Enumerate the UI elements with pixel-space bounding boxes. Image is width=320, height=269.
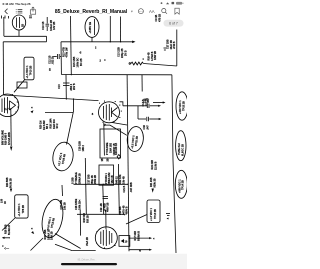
wire tube bottom right (112, 123, 127, 126)
svg-text:▾: ▾ (131, 10, 133, 14)
svg-text:+185V 1B: +185V 1B (88, 22, 92, 34)
svg-text:56.0k 2B: 56.0k 2B (9, 178, 12, 188)
wire left edge vertical (3, 17, 5, 36)
svg-text:250k 2B: 250k 2B (94, 175, 97, 184)
box BASS pot (99, 165, 114, 185)
svg-text:16V 2B: 16V 2B (53, 21, 56, 30)
svg-text:C21 B: C21 B (123, 185, 126, 192)
wire vertical to V6 (105, 210, 107, 229)
capacitor C13 (58, 83, 76, 91)
svg-text:6 of 7: 6 of 7 (169, 22, 178, 26)
svg-text:11.7: 11.7 (4, 108, 9, 111)
svg-text:85_Deluxe_Reverb_RI_Manual: 85_Deluxe_Reverb_RI_Manual (55, 9, 128, 15)
svg-text:91.0kA B: 91.0kA B (137, 231, 140, 241)
toolbar share icon (30, 7, 35, 14)
svg-text:+1.3 VDC 1: +1.3 VDC 1 (18, 203, 21, 217)
toolbar bookmark icon (175, 8, 179, 14)
node dot (129, 237, 130, 238)
symbol cap marks (164, 48, 167, 50)
svg-text:JFW B: JFW B (173, 41, 176, 49)
capacitor C12 symbol (54, 54, 62, 59)
callout TP16 (51, 141, 76, 173)
svg-text:C13: C13 (58, 84, 61, 89)
svg-text:510 2B: 510 2B (86, 215, 89, 223)
svg-text:85_Deluxe_Rev...: 85_Deluxe_Rev... (78, 259, 97, 262)
svg-text:910k 2B: 910k 2B (153, 178, 156, 187)
svg-text:47B 2B: 47B 2B (158, 14, 161, 22)
wire horizontal bottom (72, 250, 96, 252)
svg-text:TP14 2B: TP14 2B (182, 180, 185, 190)
svg-text:VGA 1B: VGA 1B (86, 237, 89, 246)
svg-text:10k 4B: 10k 4B (122, 176, 125, 184)
svg-text:2V B: 2V B (125, 50, 128, 56)
wire tone bus (74, 183, 128, 185)
wire vertical to volume (103, 123, 106, 156)
callout 6L6 (176, 131, 186, 161)
ground arrow (10, 147, 12, 152)
svg-text:400V B: 400V B (126, 206, 129, 214)
svg-text:.047: .047 (146, 125, 149, 130)
svg-text:N: N (139, 249, 141, 253)
svg-text:BC 2B: BC 2B (80, 58, 83, 66)
wire (102, 185, 105, 214)
svg-text:22.0k B: 22.0k B (154, 161, 157, 170)
tube V6 (95, 227, 117, 249)
wire vertical B (65, 75, 67, 100)
svg-text:2kV B: 2kV B (73, 83, 76, 90)
wire C16 row (138, 106, 162, 121)
box arrow 1B (119, 236, 130, 247)
callout +9 VDC (175, 170, 187, 198)
node dots tone bus (85, 184, 86, 185)
svg-text:1B: 1B (50, 68, 52, 71)
wire vertical (70, 16, 73, 75)
ground symbol right (166, 214, 170, 220)
wire (117, 164, 120, 214)
svg-text:.047: .047 (147, 98, 150, 103)
tube V4 (0, 94, 19, 117)
wire TP10 leader (14, 80, 25, 93)
svg-text:×: × (31, 106, 33, 110)
wire vertical (109, 16, 111, 42)
wire TP8 leader (2, 218, 15, 231)
svg-text:AA: AA (149, 9, 155, 14)
wire diagonal a (55, 234, 81, 249)
svg-text:6L6GC 2B: 6L6GC 2B (181, 144, 184, 156)
wire riser (46, 36, 48, 42)
svg-text:6:43 AM Thu Sep 26: 6:43 AM Thu Sep 26 (3, 2, 31, 6)
svg-text:400V 1B: 400V 1B (107, 202, 110, 212)
callout TP8 box (15, 195, 28, 218)
svg-text:-S: -S (79, 52, 82, 55)
svg-text:C10 1B: C10 1B (42, 21, 45, 30)
svg-text:10k 2B: 10k 2B (63, 202, 66, 210)
svg-text:250kA 2B: 250kA 2B (78, 173, 81, 184)
wire leader to TP11 (104, 124, 110, 126)
svg-text:1Pc0A 2BB: 1Pc0A 2BB (8, 132, 11, 145)
wire horizontal long (61, 74, 171, 76)
wire TP13 leader (126, 215, 147, 225)
svg-text:1B2 CB: 1B2 CB (112, 175, 114, 184)
callout TP10 (24, 57, 34, 80)
wire diagonal (67, 113, 74, 145)
callout +418 VDC (176, 92, 188, 120)
node (73, 98, 74, 99)
resistor R16 (129, 62, 177, 66)
symbol diamond (117, 155, 120, 159)
callout TP11 (126, 126, 145, 153)
callout TP13 box (147, 200, 160, 223)
wire vertical (119, 17, 121, 42)
page indicator pill 6 of 7 (164, 20, 184, 27)
toolbar contents icon (16, 10, 22, 13)
tone stack wires (85, 158, 86, 214)
wire TP12 leader (31, 238, 44, 251)
wire long mid vertical (127, 75, 129, 252)
svg-text:+1.3 VDC 1: +1.3 VDC 1 (150, 207, 153, 221)
wire vertical bottom mid (79, 210, 81, 236)
wire stub below TP16 (61, 185, 64, 196)
toolbar more icon (138, 9, 143, 14)
wire right top vertical (176, 30, 178, 67)
svg-text:51.0kA B: 51.0kA B (8, 225, 11, 235)
toolbar search icon (162, 9, 167, 14)
capacitor C10 (42, 17, 56, 31)
wire horizontal mid (45, 111, 73, 113)
wire C15 row (123, 104, 161, 108)
svg-text:1B: 1B (102, 158, 104, 161)
wire tone bottom bus (77, 213, 126, 215)
box VOLUME pot (100, 129, 121, 158)
wire arrowhead (132, 41, 135, 44)
svg-text:2B: 2B (22, 24, 25, 27)
svg-text:S0 2: S0 2 (56, 123, 59, 129)
tube V1 (12, 15, 25, 36)
wire stub to C14 (141, 75, 143, 92)
wire arrow (153, 102, 163, 104)
svg-text:×: × (31, 227, 33, 231)
svg-text:TP8 2B: TP8 2B (22, 205, 25, 214)
svg-text:1N4003 1B: 1N4003 1B (113, 143, 116, 155)
svg-text:10B 2: 10B 2 (82, 144, 85, 151)
tube V2 callout +185V (85, 17, 99, 42)
wire A horizontal (4, 35, 47, 37)
svg-text:100k 1B<: 100k 1B< (78, 199, 81, 210)
svg-text:TP10 2B: TP10 2B (30, 65, 33, 75)
home indicator (61, 263, 117, 265)
svg-text:.047 4BB: .047 4BB (130, 182, 133, 192)
wire diagonal b (55, 244, 72, 250)
wire long right vertical (172, 75, 176, 253)
node junction (120, 41, 121, 42)
svg-text:TP15 2B: TP15 2B (182, 101, 185, 111)
ground arrow (152, 189, 154, 193)
bottom grey band (0, 254, 187, 269)
wire plate out (120, 102, 123, 106)
wire branch b (129, 249, 152, 251)
callout TP12 (39, 197, 66, 239)
wire vertical left (10, 108, 12, 146)
wire corner vertical (60, 42, 62, 75)
node junction (110, 41, 111, 42)
wire left riser (2, 42, 4, 95)
wire V4 to V3 (4, 95, 99, 101)
svg-text:2B: 2B (108, 158, 110, 161)
svg-text:TP13 2B: TP13 2B (154, 209, 157, 219)
wire B right (61, 41, 133, 43)
component box (17, 82, 27, 88)
svg-text:10W 2B: 10W 2B (51, 231, 54, 240)
ground arrow left (2, 237, 10, 239)
svg-text:470k 1W: 470k 1W (66, 47, 69, 58)
svg-text:1BW 2B: 1BW 2B (154, 51, 157, 60)
svg-text:250kA 1B2: 250kA 1B2 (108, 172, 111, 185)
wire ticks top left (2, 16, 33, 19)
svg-text:1MA 1B2: 1MA 1B2 (109, 142, 112, 153)
wire B left (3, 41, 46, 43)
wire branch a (129, 237, 153, 239)
node (12, 94, 13, 95)
capacitor C19 plates (103, 196, 109, 198)
toolbar back chevron (5, 9, 7, 14)
tube V3 (99, 101, 122, 123)
wire stub down (72, 99, 74, 112)
status bar icons (161, 2, 184, 5)
ground arrow (10, 189, 12, 193)
